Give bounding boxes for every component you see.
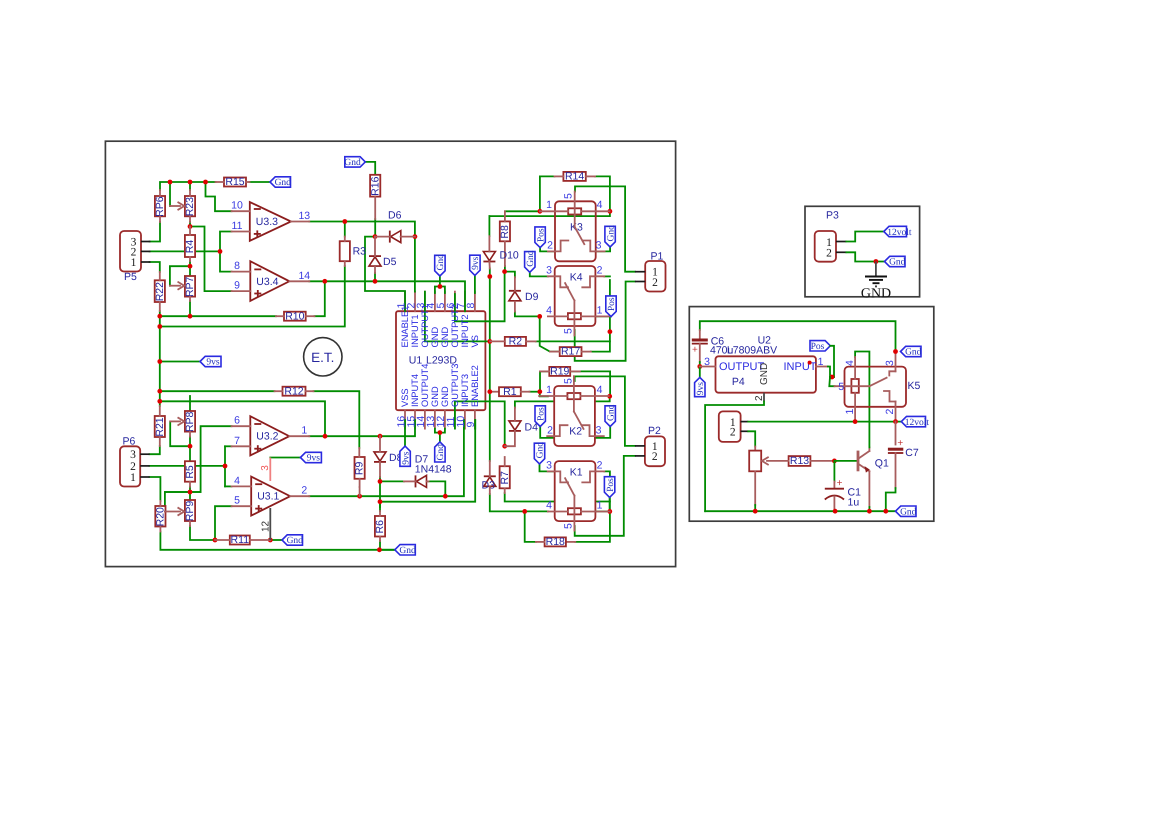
wire RP8 top (189, 396, 191, 411)
wire ENABLE2 net left segment (380, 420, 475, 502)
connector P5 (120, 231, 141, 272)
wire R1 left (490, 391, 499, 393)
diode D5 (369, 255, 381, 257)
svg-text:GND: GND (759, 363, 770, 385)
wire x490 down to D3 (489, 392, 491, 461)
wire P5 pin1 to R22 (150, 262, 160, 272)
wire U2 ground to left rail (705, 402, 764, 512)
capacitor C6 (699, 330, 701, 339)
relay K3 body (555, 201, 596, 261)
svg-text:U3.3: U3.3 (256, 216, 278, 228)
wire K1 pin1 to Pos column (595, 510, 610, 512)
wire bracket to Gnd tag (439, 433, 441, 442)
wire R6 top node (379, 502, 381, 511)
resistor R4 (185, 235, 195, 257)
svg-text:5: 5 (563, 378, 575, 384)
wire Q1 emitter to rail (868, 507, 870, 511)
wire K3 pin2 from Pos (540, 248, 555, 252)
svg-text:P1: P1 (651, 251, 664, 263)
svg-text:R2: R2 (509, 336, 523, 348)
wire pin10 INPUT3 from out2 (463, 420, 465, 429)
U2 pin1 (816, 366, 828, 368)
svg-text:RP8: RP8 (184, 411, 196, 432)
svg-text:+: + (837, 478, 843, 489)
wire pin16 stub (404, 420, 406, 436)
wire U3.1 output 2 (309, 420, 464, 496)
svg-text:1: 1 (546, 384, 552, 396)
wire D8 node down to enable2 node (379, 481, 381, 507)
net label Gnd (885, 256, 906, 266)
relay K3 contact brackets (548, 241, 568, 252)
svg-text:9: 9 (234, 280, 240, 292)
junction U2 output node (697, 364, 702, 369)
wire P4 pin2 to potentiometer (748, 431, 755, 446)
svg-text:VSS: VSS (400, 388, 410, 407)
svg-text:5: 5 (234, 495, 240, 507)
svg-text:R16: R16 (369, 176, 381, 195)
wire R21 bottom to P6 pin3 (150, 446, 160, 454)
wire U3.3 output 13 (309, 222, 415, 292)
svg-text:OUTPUT4: OUTPUT4 (420, 364, 430, 407)
svg-text:1: 1 (131, 257, 137, 269)
resistor R1 (499, 387, 521, 396)
wire D8 bottom node (379, 477, 381, 481)
ground symbol GND (875, 262, 877, 277)
svg-text:9vs: 9vs (471, 256, 481, 270)
svg-text:8: 8 (234, 260, 240, 272)
wire K4 pin1 to Pos (595, 315, 611, 317)
wire R11 right to Gnd (270, 539, 282, 541)
wire D4 bottom to node (505, 431, 515, 446)
svg-text:R6: R6 (374, 520, 386, 534)
junction dots (168, 180, 173, 185)
svg-text:Pos: Pos (536, 228, 546, 242)
relay K4 coil pins (548, 315, 568, 317)
wire U3.1 pin4 input (225, 485, 232, 487)
wire R16 top to Gnd (365, 162, 375, 175)
svg-text:9vs: 9vs (696, 382, 706, 396)
svg-text:D5: D5 (383, 256, 397, 268)
svg-text:4: 4 (844, 360, 856, 366)
relay K4 common and contact (573, 301, 575, 336)
main schematic frame (105, 141, 675, 566)
svg-text:P4: P4 (732, 376, 745, 388)
wire node to K5 pin5 (829, 377, 834, 386)
wire K1 pin5 to P2 pin2 (575, 456, 635, 536)
svg-text:P2: P2 (648, 425, 661, 437)
net label Gnd (395, 545, 416, 555)
wire P5 pin2 net (150, 250, 221, 252)
svg-text:3: 3 (596, 240, 602, 252)
svg-text:9vs: 9vs (307, 454, 321, 464)
relay K1 coil (568, 508, 581, 514)
logo E.T. (304, 338, 342, 376)
wire R23 wiper bracket (169, 182, 171, 206)
svg-text:14: 14 (298, 270, 310, 282)
net label Gnd (270, 177, 291, 187)
net label Pos (535, 227, 545, 248)
relay K2 body (554, 386, 595, 446)
svg-text:INPUT2: INPUT2 (460, 314, 470, 347)
svg-text:4: 4 (546, 499, 552, 511)
svg-text:GND: GND (440, 327, 450, 348)
junction Gnd top right (893, 349, 898, 354)
connector P6 (120, 446, 140, 486)
wire C7 bottom to rail (886, 488, 896, 511)
wire x490 column D10-R2-R1 (489, 277, 491, 392)
wire Gnd tag to pins4/5 bracket (439, 276, 441, 287)
svg-text:L7809ABV: L7809ABV (727, 344, 777, 356)
wire supply bottom rail (705, 510, 895, 512)
resistor R15 (224, 178, 246, 187)
relay K2 contact brackets (547, 425, 567, 436)
wire R1 right node (530, 391, 540, 393)
wire RP7 wiper bracket (170, 266, 190, 286)
wire Pos tag stub K1 (609, 497, 611, 511)
svg-text:Gnd: Gnd (889, 258, 906, 268)
junction bottom rail dots (753, 509, 758, 514)
svg-text:R13: R13 (790, 455, 809, 467)
svg-text:R19: R19 (550, 366, 569, 378)
net label Gnd (345, 157, 366, 167)
net label Gnd (896, 506, 917, 516)
resistor R20 (155, 506, 165, 527)
resistor R3 (340, 241, 350, 261)
net label 9vs (400, 446, 410, 466)
wire K4 pin2 down column (604, 275, 610, 277)
svg-text:U3.1: U3.1 (257, 491, 279, 503)
capacitor C1 (833, 482, 835, 489)
diode D10 (483, 252, 495, 261)
svg-text:6: 6 (234, 415, 240, 427)
relay K4 coil (568, 313, 581, 319)
wire R10 right to out14 (315, 281, 325, 316)
relay K1 coil pins (548, 511, 568, 513)
wire R12 right to R9 (314, 391, 360, 448)
wire U3.3 pin11 input (220, 232, 232, 252)
resistor R23 (185, 196, 195, 216)
diode D8 (374, 452, 386, 461)
diode D7 (415, 475, 417, 487)
net label 9vs (300, 452, 321, 462)
svg-text:R14: R14 (565, 171, 584, 183)
svg-text:5: 5 (563, 523, 575, 529)
wire base node to C1 (833, 461, 835, 482)
resistor R8 (500, 221, 510, 241)
wire D7 left to D8 node (380, 480, 404, 482)
svg-text:P5: P5 (124, 271, 137, 283)
op-amp U3.4 (250, 261, 289, 301)
svg-text:R4: R4 (184, 240, 196, 254)
svg-text:U3.4: U3.4 (256, 276, 278, 288)
net label 12volt (884, 226, 907, 236)
K5 pin4 lead (854, 357, 856, 379)
svg-text:OUTPUT1: OUTPUT1 (420, 304, 430, 347)
resistor R18 (545, 537, 566, 546)
junction Q1 base node (832, 459, 837, 464)
diode D3 (484, 475, 496, 477)
resistor R13 with wiper arrow (789, 456, 811, 466)
U1 top pin stubs 1-8 (404, 292, 406, 312)
svg-text:Gnd: Gnd (436, 444, 446, 461)
net label 9vs (470, 255, 480, 275)
op-amp U3.1 (251, 477, 290, 516)
wire bus y401 to out1 node (160, 401, 325, 436)
svg-text:Pos: Pos (606, 478, 616, 492)
svg-text:1: 1 (130, 472, 136, 484)
net label 9vs (200, 356, 221, 366)
wire pins4/5 bracket (435, 287, 445, 294)
svg-text:ENABLE2: ENABLE2 (470, 365, 480, 407)
svg-text:3: 3 (704, 356, 710, 368)
resistor R5 (185, 461, 195, 482)
wire 9vs tag to pin8 (474, 275, 476, 293)
svg-text:1: 1 (301, 425, 307, 437)
wire R14 right to K3 pin4 (595, 176, 610, 211)
svg-text:3: 3 (884, 360, 896, 366)
resistor R9 (355, 457, 365, 479)
net label Gnd (525, 252, 535, 273)
connector P3 (815, 231, 836, 262)
net label Gnd (605, 226, 615, 247)
svg-text:2: 2 (597, 265, 603, 277)
connector P4 (719, 411, 741, 442)
svg-text:Gnd: Gnd (606, 225, 616, 242)
net label Pos (606, 296, 616, 317)
K5 pin2 lead (895, 402, 897, 422)
resistor R7 (500, 466, 510, 488)
wire base node to Q1 (834, 460, 857, 462)
wire D5 anode to out14 (374, 273, 376, 281)
K5 pin1 lead (854, 393, 856, 422)
wire P3 pin2 to Gnd (846, 252, 884, 261)
svg-text:2: 2 (652, 277, 658, 289)
wire Q1 collector to K5 coil pin4 (855, 352, 869, 448)
relay K4 contact brackets (548, 276, 568, 287)
svg-text:Gnd: Gnd (436, 254, 446, 271)
wire D7 branch (429, 481, 446, 496)
op-amp U3.3 (250, 202, 291, 241)
resistor R6 (375, 516, 385, 537)
wire C6 to U2 pin3 node (699, 362, 701, 367)
wire pin10 path (206, 182, 232, 211)
svg-text:RP9: RP9 (184, 501, 196, 522)
svg-text:Gnd: Gnd (399, 546, 416, 556)
svg-text:3: 3 (546, 265, 552, 277)
wire R17 right up K2-pin2 column (591, 280, 610, 352)
net label Gnd (435, 442, 445, 462)
wire K2 pin1 (540, 392, 548, 397)
svg-text:1: 1 (597, 304, 603, 316)
svg-text:5: 5 (563, 328, 575, 334)
svg-text:Gnd: Gnd (526, 250, 536, 267)
wire D4 net from OUTPUT3 (515, 396, 610, 401)
svg-text:2: 2 (597, 460, 603, 472)
svg-text:D9: D9 (525, 291, 539, 303)
wire pins 12/13 bracket (435, 429, 445, 433)
resistor R16 (370, 175, 380, 197)
transistor Q1 (857, 451, 860, 472)
svg-text:Gnd: Gnd (606, 404, 616, 421)
wire R16 bottom (374, 219, 376, 237)
wire D9 top branch (505, 272, 515, 278)
wire RP8 bottom to R5 (189, 437, 191, 462)
wire K1 pin4 node to R18 left (525, 511, 536, 542)
capacitor C7 (895, 422, 897, 445)
svg-text:INPUT1: INPUT1 (410, 314, 420, 347)
svg-text:RP6: RP6 (154, 196, 166, 217)
wire pin9 ENABLE2 stub (474, 420, 476, 429)
svg-text:2: 2 (652, 451, 658, 463)
wire R19 right to K2 pin4 (570, 371, 610, 396)
svg-text:R3: R3 (353, 246, 367, 258)
wire 9vs bus y326 to R3 (160, 266, 345, 327)
wire K1 pin3 from Gnd (540, 464, 555, 472)
svg-text:11: 11 (232, 220, 243, 232)
wire R7 bottom to K1 column (505, 493, 610, 502)
relay K1 contact brackets (548, 471, 568, 482)
wire R15 to Gnd tag (250, 181, 271, 183)
svg-text:R1: R1 (503, 386, 517, 398)
svg-text:Gnd: Gnd (287, 536, 304, 546)
wire R16/D5/D6 node to ENABLE1 (365, 237, 405, 312)
svg-text:+: + (897, 438, 903, 449)
net label Gnd (282, 535, 303, 545)
svg-text:VS: VS (470, 335, 480, 347)
resistor RP6 (155, 196, 165, 216)
svg-text:GND: GND (861, 287, 891, 302)
svg-text:3: 3 (260, 465, 271, 471)
K5 pin3 lead (895, 352, 897, 372)
svg-text:OUTPUT: OUTPUT (719, 361, 765, 373)
wire R14 left to K3 pin1 (539, 176, 541, 211)
wire pin7-pin4 vertical (224, 446, 226, 486)
svg-text:3: 3 (130, 449, 136, 461)
wire R8 top to K3 pin1 (505, 210, 540, 212)
K5 coil (851, 379, 858, 393)
svg-text:5: 5 (838, 381, 844, 393)
wire supply top rail (700, 321, 896, 351)
svg-text:9: 9 (465, 422, 477, 428)
resistor R19 (549, 367, 570, 376)
wire OUTPUT3 through body to D4/R7 node (455, 401, 505, 446)
wire P5 pin3 to RP6 (150, 222, 161, 242)
diode D9 (509, 290, 521, 292)
wire U3.1 pin5 input (215, 506, 232, 540)
op-amp U3.1 power pin 3 (269, 458, 271, 482)
resistor RP7 (185, 276, 195, 297)
svg-text:2: 2 (547, 240, 553, 252)
wire R12 bus y391 (160, 390, 275, 392)
resistor R21 (155, 416, 165, 437)
svg-text:Pos: Pos (607, 297, 617, 311)
svg-text:3: 3 (596, 425, 602, 437)
RP-wiper arrow R23 (170, 205, 180, 207)
svg-text:D10: D10 (500, 250, 519, 262)
svg-text:2: 2 (547, 425, 553, 437)
svg-text:5: 5 (563, 193, 575, 199)
wire RP7 top (189, 261, 191, 276)
wire RP9 bottom (190, 526, 215, 540)
svg-text:12volt: 12volt (905, 418, 930, 428)
wire K1 pin2/R18 column (575, 471, 610, 542)
svg-text:1: 1 (597, 499, 603, 511)
svg-text:2: 2 (884, 409, 896, 415)
svg-text:OUTPUT3: OUTPUT3 (450, 364, 460, 407)
svg-text:U3.2: U3.2 (256, 431, 278, 443)
relay K5 body (845, 367, 907, 407)
net label 12volt (901, 416, 925, 426)
resistor R17 (560, 347, 582, 356)
svg-text:4: 4 (234, 475, 240, 487)
wire U3.1 pin3 supply stub (270, 457, 300, 459)
svg-text:2: 2 (754, 395, 765, 401)
svg-text:8: 8 (465, 303, 477, 309)
wire ground rail Gnd tag (379, 549, 394, 551)
relay K1 common and contact (573, 496, 575, 531)
wire D10 bottom to R2 column (489, 269, 491, 277)
wire 9vs label stub (160, 361, 200, 363)
wire R20 bottom to ground rail (160, 532, 394, 550)
svg-text:Gnd: Gnd (536, 442, 546, 459)
wire R8 bottom node (504, 266, 506, 272)
connector P1 (645, 261, 665, 292)
net label Pos (810, 341, 830, 351)
svg-text:INPUT3: INPUT3 (460, 374, 470, 407)
RP-wiper arrow RP9 (165, 511, 180, 513)
svg-text:Q1: Q1 (875, 457, 889, 469)
P3 section frame (805, 206, 920, 296)
junction 12volt K5 pins (853, 419, 858, 424)
svg-text:K4: K4 (570, 272, 583, 284)
RP-wiper arrow RP7 (170, 285, 180, 287)
resistor R2 (505, 337, 526, 346)
op-amp U3.1 power pin 12 (269, 508, 271, 540)
svg-text:4: 4 (597, 199, 603, 211)
svg-text:R9: R9 (354, 462, 366, 476)
wire U3.2 pin7 input (225, 445, 232, 447)
svg-text:R11: R11 (231, 534, 250, 546)
wire P3 pin1 to 12volt (846, 232, 883, 242)
wire D4 top stub (514, 401, 516, 407)
svg-text:13: 13 (298, 210, 310, 222)
diode D4 (509, 421, 521, 430)
net label Gnd (435, 255, 445, 276)
svg-text:10: 10 (231, 200, 243, 212)
relay K4 body (555, 266, 596, 326)
svg-text:2: 2 (301, 485, 307, 497)
wire R2 right run (536, 340, 610, 342)
resistor RP8 (185, 411, 195, 432)
wire P6 pin2 net (150, 465, 226, 467)
wire R19 left down (540, 371, 549, 391)
svg-text:1u: 1u (848, 496, 860, 508)
diode D6 (389, 231, 391, 243)
svg-text:GND: GND (430, 386, 440, 407)
wire U3.4 pin8 input (220, 251, 232, 271)
svg-text:2: 2 (730, 427, 736, 439)
svg-text:9vs: 9vs (401, 451, 411, 465)
wire OUTPUT1 through body to R2 (425, 292, 490, 342)
wire 9vs bus y316 (160, 315, 276, 317)
svg-text:Pos: Pos (811, 342, 825, 352)
wire K1 pin4 node (525, 510, 548, 512)
svg-text:R8: R8 (499, 225, 511, 239)
svg-text:INPUT: INPUT (784, 361, 817, 373)
svg-text:1: 1 (844, 409, 856, 415)
svg-text:D6: D6 (388, 210, 402, 222)
wire RP8 wiper bracket (170, 421, 190, 446)
